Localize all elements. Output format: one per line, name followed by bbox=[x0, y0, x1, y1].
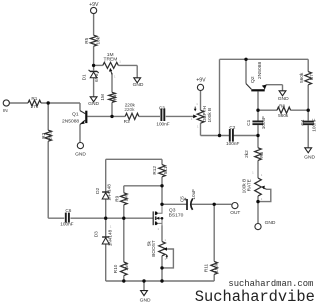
svg-text:R7: R7 bbox=[309, 74, 314, 80]
svg-text:C4: C4 bbox=[300, 119, 305, 125]
svg-text:100nF: 100nF bbox=[60, 222, 73, 227]
svg-text:2k2: 2k2 bbox=[244, 150, 249, 158]
svg-text:C1: C1 bbox=[246, 119, 251, 125]
svg-text:5k1: 5k1 bbox=[163, 166, 168, 174]
svg-text:R4: R4 bbox=[113, 94, 118, 100]
svg-text:1N4148: 1N4148 bbox=[107, 184, 112, 201]
svg-text:10uF: 10uF bbox=[191, 189, 196, 200]
svg-text:GND: GND bbox=[133, 82, 144, 88]
svg-text:R1: R1 bbox=[31, 96, 37, 101]
svg-text:Q1: Q1 bbox=[72, 112, 79, 118]
svg-text:100k B: 100k B bbox=[241, 179, 246, 194]
svg-text:100nF: 100nF bbox=[226, 141, 239, 146]
svg-text:1N4148: 1N4148 bbox=[107, 229, 112, 246]
svg-text:GND: GND bbox=[140, 298, 151, 304]
svg-text:6V8: 6V8 bbox=[94, 73, 99, 82]
svg-text:100nF: 100nF bbox=[261, 116, 266, 129]
svg-text:27k: 27k bbox=[31, 104, 39, 109]
svg-text:2N5088: 2N5088 bbox=[62, 118, 79, 124]
svg-text:D2: D2 bbox=[95, 188, 100, 194]
svg-text:100nF: 100nF bbox=[312, 118, 317, 131]
svg-text:GND: GND bbox=[75, 151, 86, 157]
svg-text:R11: R11 bbox=[204, 263, 209, 272]
svg-text:R8: R8 bbox=[279, 104, 285, 109]
svg-text:100k: 100k bbox=[213, 262, 218, 273]
svg-text:2M2: 2M2 bbox=[48, 131, 53, 141]
svg-text:GND: GND bbox=[278, 96, 289, 102]
svg-text:C2: C2 bbox=[229, 125, 235, 130]
svg-text:RATE: RATE bbox=[247, 179, 252, 191]
svg-text:D3: D3 bbox=[93, 231, 98, 237]
svg-text:1M: 1M bbox=[124, 264, 129, 271]
svg-text:100nF: 100nF bbox=[156, 121, 169, 126]
svg-text:D1: D1 bbox=[82, 74, 87, 80]
svg-text:10k: 10k bbox=[96, 36, 101, 44]
svg-text:GND: GND bbox=[265, 220, 276, 226]
svg-text:1M: 1M bbox=[124, 195, 129, 202]
svg-text:BOOST: BOOST bbox=[151, 240, 156, 257]
svg-text:IN: IN bbox=[3, 108, 8, 113]
svg-text:+9V: +9V bbox=[89, 2, 99, 8]
svg-text:C6: C6 bbox=[65, 208, 71, 213]
svg-text:OUT: OUT bbox=[230, 210, 240, 216]
svg-text:Q2: Q2 bbox=[250, 76, 256, 83]
svg-text:560k: 560k bbox=[299, 72, 304, 83]
svg-text:R2: R2 bbox=[41, 132, 46, 138]
svg-text:R6: R6 bbox=[259, 151, 264, 157]
svg-text:Suchahardvibe: Suchahardvibe bbox=[195, 288, 315, 304]
svg-text:C3: C3 bbox=[159, 105, 165, 110]
svg-text:TREM: TREM bbox=[103, 56, 117, 62]
svg-text:GND: GND bbox=[88, 101, 99, 107]
svg-text:1M: 1M bbox=[100, 94, 105, 101]
svg-text:R5: R5 bbox=[84, 37, 89, 43]
svg-text:R3: R3 bbox=[124, 119, 130, 124]
svg-text:C5: C5 bbox=[180, 196, 185, 202]
svg-text:R10: R10 bbox=[113, 264, 118, 273]
svg-text:100k B: 100k B bbox=[207, 108, 212, 123]
svg-text:R9: R9 bbox=[115, 195, 120, 201]
svg-text:560k: 560k bbox=[278, 113, 289, 118]
svg-text:2N5088: 2N5088 bbox=[257, 62, 263, 79]
svg-text:R12: R12 bbox=[152, 166, 157, 175]
svg-text:+9V: +9V bbox=[196, 78, 206, 84]
svg-text:220k: 220k bbox=[124, 107, 135, 112]
svg-text:GND: GND bbox=[304, 154, 315, 160]
svg-text:BS170: BS170 bbox=[169, 212, 184, 218]
